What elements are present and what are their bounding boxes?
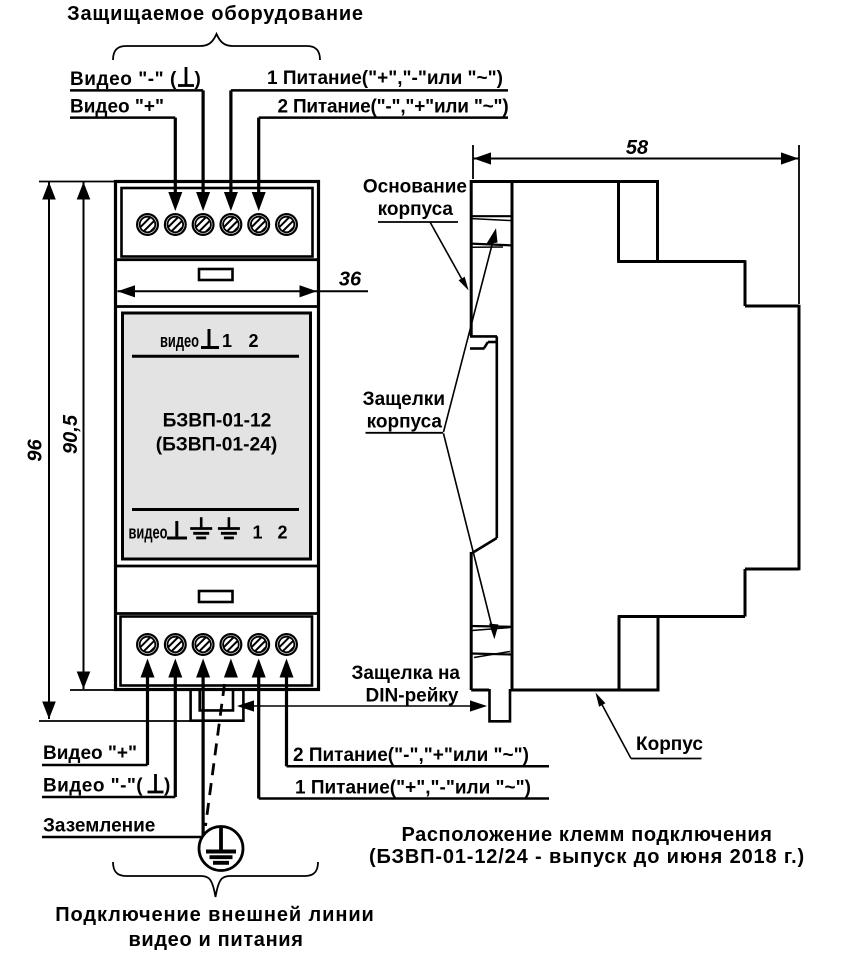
- svg-text:БЗВП-01-12: БЗВП-01-12: [163, 411, 272, 432]
- svg-text:58: 58: [626, 137, 649, 159]
- svg-text:Видео "-" (: Видео "-" (: [70, 69, 177, 90]
- DIN foot outer: [191, 689, 244, 721]
- underline 1 Питание top: [231, 89, 508, 92]
- up arrow terminal 2: [168, 659, 182, 678]
- step top: [617, 260, 745, 263]
- leader to top latches: [444, 241, 494, 432]
- terminal screw 5 bottom: [248, 634, 269, 655]
- svg-text:Защищаемое оборудование: Защищаемое оборудование: [67, 3, 364, 25]
- up arrow terminal 1: [141, 659, 155, 678]
- terminal screw 3 top: [193, 214, 214, 235]
- right edge: [798, 305, 801, 571]
- wire terminal 3 to Заземление: [202, 677, 205, 837]
- svg-text:видео и питания: видео и питания: [128, 929, 303, 951]
- bottom latch slot: [199, 591, 233, 602]
- front view outer case: [116, 182, 319, 690]
- terminal screw 6 top: [276, 214, 297, 235]
- 58 dimension extension lines: [472, 145, 474, 179]
- svg-text:1: 1: [252, 523, 262, 543]
- svg-text:Видео "+": Видео "+": [43, 743, 137, 764]
- svg-text:2: 2: [248, 331, 258, 351]
- underline Видео "-": [70, 89, 203, 92]
- dimension line 90,5: [83, 182, 85, 689]
- symbol ⊥ in label: [178, 84, 194, 87]
- case divider line: [116, 565, 319, 568]
- svg-text:2: 2: [277, 523, 287, 543]
- svg-text:96: 96: [25, 439, 47, 462]
- terminal screw 2 bottom: [165, 634, 186, 655]
- bottom case latch marks: [471, 626, 512, 658]
- svg-text:Видео "-"(: Видео "-"(: [43, 776, 143, 797]
- up arrow terminal 4: [224, 659, 238, 678]
- terminal screw 4 top: [221, 214, 242, 235]
- base middle recess: [470, 336, 497, 553]
- bottom terminal block: [121, 617, 313, 686]
- leader line with two arrows: [239, 705, 485, 707]
- svg-text:): ): [164, 776, 170, 797]
- terminal screw 5 top: [248, 214, 269, 235]
- step bottom: [618, 615, 745, 618]
- svg-text:Защелка на: Защелка на: [351, 663, 460, 684]
- svg-text:2 Питание("-","+"или "~"): 2 Питание("-","+"или "~"): [293, 745, 529, 766]
- base plate right edge: [511, 180, 514, 690]
- svg-text:корпуса: корпуса: [378, 199, 454, 220]
- svg-text:90,5: 90,5: [60, 414, 82, 454]
- base plate left edge lower: [470, 552, 473, 690]
- wire to terminal 5: [257, 118, 260, 193]
- protective earth circle symbol: [199, 827, 243, 871]
- terminal screw 6 bottom: [276, 634, 297, 655]
- wire to terminal 3: [202, 90, 205, 193]
- dimension extension line top: [39, 181, 114, 183]
- svg-text:(БЗВП-01-24): (БЗВП-01-24): [156, 435, 277, 456]
- dimension extension line bottom 90,5: [70, 689, 114, 691]
- dashed wire terminal 4 to ground circle: [206, 684, 225, 826]
- svg-text:1 Питание("+","-"или "~"): 1 Питание("+","-"или "~"): [267, 68, 503, 89]
- svg-text:Подключение внешней линии: Подключение внешней линии: [55, 904, 374, 926]
- underline Видео "+": [70, 116, 175, 119]
- earth symbol 1: [190, 517, 212, 538]
- terminal cover verticals: [617, 182, 620, 262]
- panel bottom row line: [132, 508, 299, 511]
- up arrow terminal 6: [280, 659, 294, 678]
- wire terminal 1 to Видео "+": [146, 677, 149, 765]
- svg-text:Расположение клемм подключения: Расположение клемм подключения: [401, 824, 772, 846]
- svg-text:видео: видео: [129, 523, 168, 543]
- case divider line: [116, 305, 319, 308]
- wire to terminal 4: [229, 90, 232, 193]
- dimension line 58: [473, 158, 799, 160]
- front label panel: [123, 313, 311, 559]
- up arrow terminal 5: [252, 659, 266, 678]
- svg-text:Корпус: Корпус: [636, 734, 703, 755]
- up arrow terminal 3: [196, 659, 210, 678]
- dimension extension line bottom 96: [39, 720, 244, 722]
- wire terminal 2 to Видео "-": [174, 677, 177, 797]
- svg-text:1: 1: [222, 331, 232, 351]
- terminal screw 2 top: [165, 214, 186, 235]
- svg-text:видео: видео: [160, 331, 199, 351]
- svg-text:корпуса: корпуса: [367, 412, 443, 433]
- top curly brace: [113, 34, 320, 60]
- svg-text:DIN-рейку: DIN-рейку: [366, 686, 459, 707]
- base plate left edge upper: [470, 180, 473, 336]
- underline 2 Питание top: [259, 116, 508, 119]
- bottom edge: [511, 689, 658, 692]
- svg-text:36: 36: [339, 269, 362, 291]
- case divider line: [116, 612, 319, 615]
- svg-text:Основание: Основание: [363, 177, 467, 198]
- DIN foot inner: [200, 689, 233, 710]
- wire terminal 5 to 1 Питание: [257, 677, 260, 799]
- svg-text:2 Питание("-","+"или "~"): 2 Питание("-","+"или "~"): [278, 97, 509, 118]
- top terminal block: [122, 188, 313, 257]
- terminal screw 3 bottom: [193, 634, 214, 655]
- top case latch marks: [471, 216, 512, 247]
- side view outline: [471, 180, 799, 692]
- svg-text:(БЗВП-01-12/24 - выпуск до июн: (БЗВП-01-12/24 - выпуск до июня 2018 г.): [369, 846, 805, 868]
- top edge: [471, 180, 658, 183]
- svg-text:1 Питание("+","-"или "~"): 1 Питание("+","-"или "~"): [295, 778, 531, 799]
- svg-text:Защелки: Защелки: [363, 389, 445, 410]
- terminal screw 1 bottom: [137, 634, 158, 655]
- terminal screw 1 top: [137, 214, 158, 235]
- bottom curly brace: [113, 862, 318, 897]
- terminal screw 4 bottom: [221, 634, 242, 655]
- svg-text:): ): [195, 69, 201, 90]
- earth symbol 2: [218, 517, 240, 538]
- dimension line 96: [48, 182, 50, 719]
- DIN latch foot side: [490, 689, 511, 721]
- svg-text:Видео "+": Видео "+": [70, 97, 164, 118]
- wire to terminal 2: [174, 118, 177, 193]
- wire terminal 6 to 2 Питание: [285, 677, 288, 766]
- dimension line 36: [118, 290, 369, 292]
- top latch slot: [199, 269, 233, 280]
- svg-text:Заземление: Заземление: [43, 816, 155, 837]
- case divider line: [116, 258, 319, 261]
- leader to bottom latches: [444, 434, 493, 628]
